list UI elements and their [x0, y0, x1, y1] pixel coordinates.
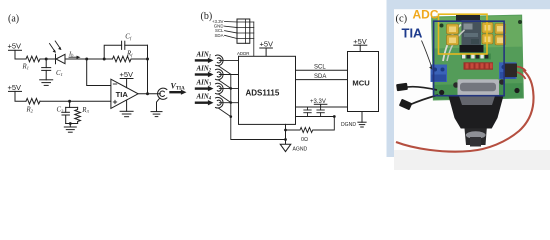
blue callout rectangle (TIA)	[434, 21, 505, 96]
capacitor C1	[42, 59, 63, 80]
wire node down to C2/R3 network	[69, 101, 71, 107]
bus junction nodes	[230, 87, 233, 118]
node at feedback tap	[103, 58, 106, 61]
module top black header	[456, 15, 480, 22]
svg-text:Rf: Rf	[126, 50, 133, 57]
ground (op-amp)	[120, 101, 133, 117]
black jumper wires (bottom left)	[404, 87, 438, 106]
ground (under C1)	[40, 80, 53, 86]
DB9 black hood	[449, 96, 504, 147]
svg-text:ADC: ADC	[413, 7, 439, 21]
svg-text:TIA: TIA	[116, 90, 129, 99]
TIA pointer line	[422, 41, 432, 67]
resistor Rf	[104, 50, 147, 62]
op-amp U1 TIA	[111, 79, 138, 108]
svg-text:TIA: TIA	[402, 26, 424, 41]
node at inverting input tap	[85, 58, 88, 61]
ADS1115 ground leg	[285, 124, 287, 144]
svg-text:Ib: Ib	[68, 51, 74, 58]
wire to ground (divider)	[69, 124, 71, 128]
module bottom black pin row	[460, 45, 484, 52]
DGND ground symbol	[341, 122, 366, 128]
ground (divider)	[64, 127, 76, 132]
ADS1115 block U2	[239, 56, 296, 124]
svg-text:0Ω: 0Ω	[301, 137, 308, 143]
node 0-ohm tap on ADS ground leg	[284, 129, 287, 132]
+5V supply (bias divider, lower left)	[8, 83, 22, 92]
svg-text:ADDR: ADDR	[237, 51, 249, 56]
wire +5V to R2	[15, 91, 26, 101]
+5V supply (op-amp)	[120, 70, 134, 87]
current label Ib with arrow	[68, 51, 81, 59]
+3.3V rail ADS1115 to MCU	[296, 106, 348, 108]
ADS1115 breakout module	[462, 20, 482, 46]
wire Cf to right feedback rail	[125, 44, 148, 46]
svg-text:+5V: +5V	[8, 83, 22, 92]
wire up to feedback capacitor branch	[104, 45, 121, 59]
resistor R3	[75, 107, 90, 124]
node shield bus joins ground leg	[284, 138, 287, 141]
+5V supply (ADS1115)	[260, 39, 274, 56]
header J2 pin labels	[212, 19, 224, 38]
gold tantalum parts	[447, 23, 506, 46]
C2/R3 bottom bar	[66, 123, 78, 125]
blue screw terminal left	[431, 65, 448, 83]
input connector J-AIN1	[216, 55, 239, 66]
decoupling capacitor C5	[317, 107, 324, 117]
node output	[146, 92, 149, 95]
svg-text:AGND: AGND	[293, 146, 308, 152]
connector shell to ground wire	[157, 98, 160, 111]
input connector J-AIN3	[216, 83, 239, 94]
input AIN4 label and arrow	[196, 94, 214, 106]
decoupling capacitor C4	[304, 107, 311, 117]
svg-text:+5V: +5V	[120, 70, 134, 79]
svg-text:Cf: Cf	[125, 33, 132, 40]
svg-text:SCL: SCL	[314, 65, 326, 71]
light arrows into photodiode	[50, 41, 62, 53]
svg-text:C1: C1	[56, 70, 63, 77]
resistor 0-ohm link AGND-DGND	[286, 117, 335, 143]
wire SDA	[296, 74, 348, 80]
wire R1 to photodiode	[40, 58, 56, 60]
connector shield drops to ground bus	[218, 66, 231, 117]
+5V supply (MCU)	[353, 37, 367, 52]
MCU ground leg	[361, 112, 363, 123]
svg-text:R1: R1	[22, 64, 29, 71]
ground (connector)	[151, 112, 162, 117]
photo background	[394, 9, 550, 170]
header J2 (ADDR select)	[237, 19, 250, 56]
input AIN2 label and arrow	[196, 65, 214, 77]
PCB board (green)	[431, 15, 524, 101]
svg-text:C2: C2	[57, 107, 65, 114]
capacitor C2	[57, 107, 70, 124]
svg-text:+5V: +5V	[8, 42, 22, 51]
input connector J-AIN4	[216, 97, 239, 108]
AGND symbol	[280, 144, 307, 152]
wire SCL	[296, 65, 348, 71]
resistor R1	[22, 56, 41, 70]
jumper pin housings	[396, 83, 408, 91]
+3.3V supply tap	[310, 99, 327, 107]
svg-text:SDA: SDA	[214, 33, 223, 38]
header J2 lead wires	[225, 22, 238, 39]
svg-text:DGND: DGND	[341, 122, 356, 128]
pale blue page edge top band	[387, 0, 550, 9]
SMD component row	[461, 54, 491, 60]
output label V_TIA with bold arrow	[171, 81, 187, 94]
pale blue page edge strip	[387, 0, 395, 157]
svg-text:R2: R2	[26, 107, 34, 114]
node Rf/rail	[146, 58, 149, 61]
MCU block U3	[348, 52, 379, 112]
black jumper housings on right terminal	[504, 64, 517, 78]
svg-text:(a): (a)	[8, 14, 19, 25]
blue screw terminal right	[499, 62, 517, 79]
header right pin bus down to ADS1115	[250, 22, 254, 56]
+5V supply rail (top left)	[8, 42, 22, 51]
wire down to op-amp inverting input	[87, 59, 111, 86]
mounting screws	[439, 90, 444, 95]
node divider bottom	[69, 122, 72, 125]
node A (junction R1/C1)	[45, 58, 48, 61]
svg-text:+5V: +5V	[353, 37, 367, 46]
right feedback rail down to output	[147, 45, 149, 93]
resistor R2	[26, 98, 41, 113]
red jumper wires right	[517, 67, 526, 80]
input AIN3 label and arrow	[196, 80, 214, 92]
svg-text:MCU: MCU	[352, 79, 370, 88]
C2/R3 top bar	[66, 106, 78, 108]
photodiode D1	[56, 54, 70, 63]
svg-text:+5V: +5V	[260, 39, 274, 48]
wire photodiode to inverting-input node	[69, 58, 104, 60]
svg-text:(b): (b)	[201, 11, 213, 22]
svg-text:R3: R3	[81, 107, 89, 114]
shield ground bus	[231, 74, 286, 139]
red resistor row	[464, 62, 494, 69]
red coax cable	[396, 70, 534, 152]
output connector J1 (coax jack)	[158, 88, 167, 99]
svg-text:ADS1115: ADS1115	[246, 89, 280, 98]
wire op-amp output to connector	[138, 93, 160, 95]
svg-text:(c): (c)	[396, 14, 408, 25]
white hookup wires from terminal to module	[443, 25, 461, 62]
capacitor Cf	[122, 33, 132, 49]
input AIN1 label and arrow	[196, 51, 214, 63]
node bias divider	[68, 100, 71, 103]
input connector J-AIN2	[216, 69, 239, 80]
capacitor ground rail	[296, 116, 335, 118]
wire R2 to op-amp non-inverting input	[40, 100, 111, 102]
DB9 connector (metal, on board)	[458, 79, 500, 96]
yellow callout rectangle (ADC)	[439, 14, 488, 54]
wire from +5V to R1	[15, 50, 26, 59]
node rail/0-ohm riser	[333, 115, 336, 118]
